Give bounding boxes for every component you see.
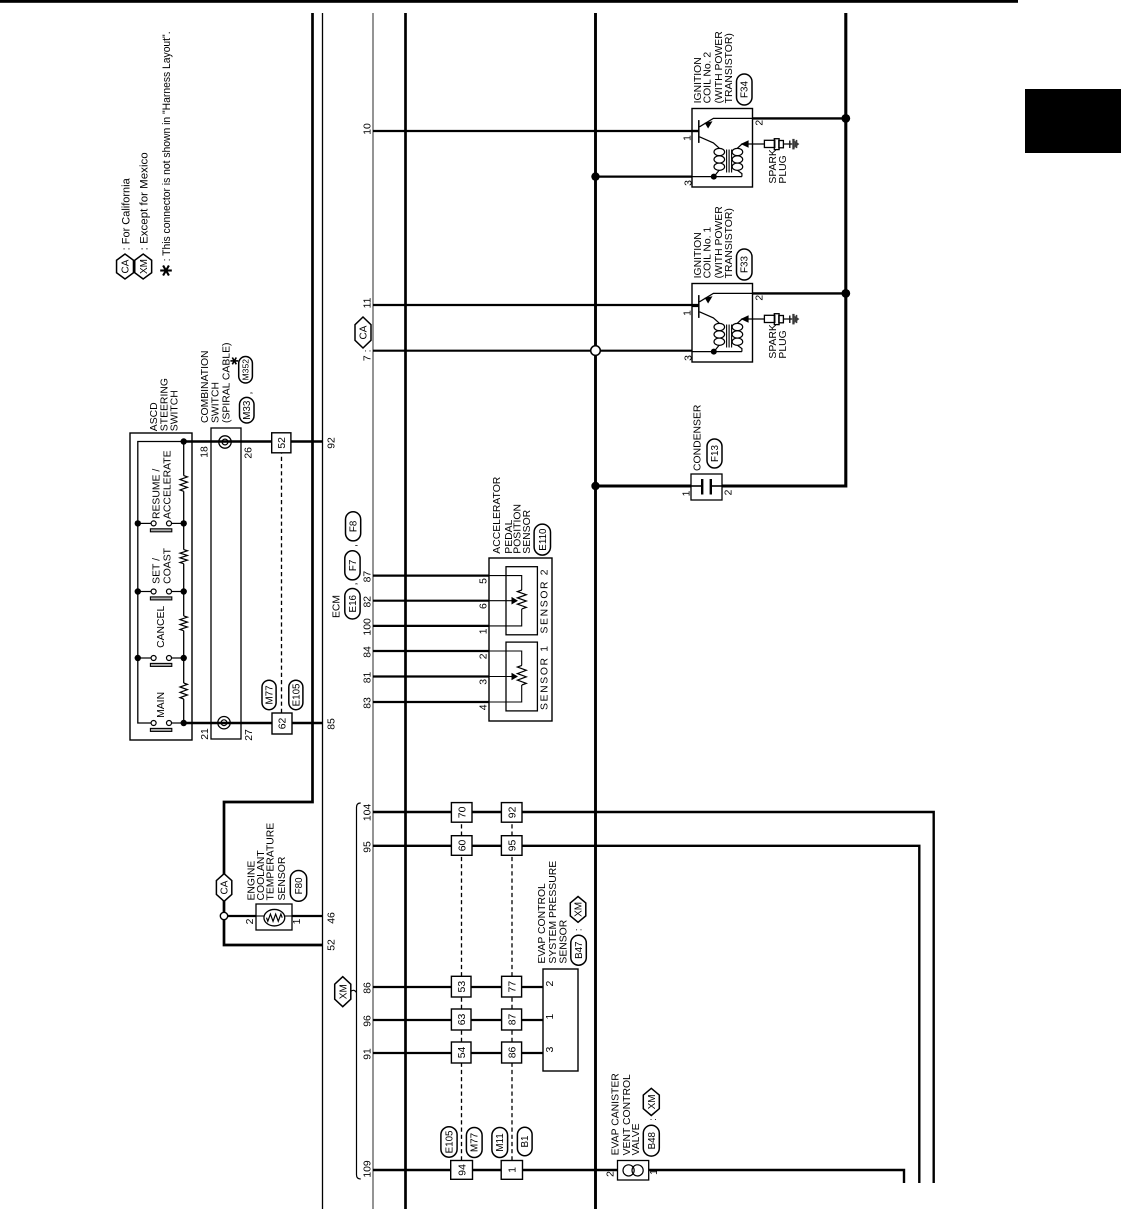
svg-text:COIL No. 1: COIL No. 1	[703, 227, 714, 279]
svg-text:2: 2	[479, 653, 490, 659]
svg-text:27: 27	[244, 729, 255, 741]
wire: valve pin 1 exit	[649, 1170, 904, 1183]
svg-text:ACCELERATE: ACCELERATE	[162, 450, 173, 519]
svg-text:81: 81	[362, 672, 373, 684]
harness dashed link between joints 52 and 62	[281, 453, 283, 713]
svg-text::: :	[574, 928, 585, 931]
ignition coil No.1 (with power transistor) F33, with spark plug	[692, 284, 799, 363]
switch: RESUME / ACCELERATE	[138, 450, 184, 531]
svg-text:ECM: ECM	[332, 595, 343, 618]
svg-text:46: 46	[326, 912, 337, 924]
svg-text:7 :: 7 :	[362, 350, 373, 362]
svg-text:60: 60	[457, 840, 468, 852]
svg-text:: Except for Mexico: : Except for Mexico	[139, 152, 151, 250]
symbol CA on ECT sensor branch	[216, 874, 231, 902]
symbol XM for B47	[570, 897, 586, 923]
connector joint 63	[451, 1009, 471, 1030]
node: open splice on trunk line 3	[591, 346, 601, 356]
svg-text:,: ,	[349, 544, 360, 547]
svg-text:86: 86	[362, 982, 373, 994]
svg-text:F34: F34	[740, 81, 751, 98]
svg-text:92: 92	[326, 437, 337, 449]
svg-text:PLUG: PLUG	[778, 155, 789, 183]
svg-text:RESUME /: RESUME /	[152, 469, 163, 519]
svg-text:SENSOR 1: SENSOR 1	[540, 646, 551, 710]
wire: ECM pin 87 to accelerator pedal position sensor pin 5	[373, 574, 489, 576]
thermistor symbol in ECT sensor	[256, 904, 292, 930]
wire: ECM pin 82 to accelerator pedal position sensor pin 6	[373, 600, 489, 602]
condenser F13	[691, 474, 722, 500]
harness dashed links column B	[511, 1063, 513, 1161]
wire: ECM pin 52 lead from splice	[224, 918, 323, 945]
svg-text:CA: CA	[359, 325, 370, 339]
svg-text:EVAP CONTROL: EVAP CONTROL	[537, 883, 548, 964]
svg-text:CA: CA	[121, 259, 132, 273]
svg-text:3: 3	[545, 1047, 556, 1053]
svg-text:: This connector is not shown: : This connector is not shown in "Harnes…	[161, 31, 173, 261]
svg-text:TRANSISTOR): TRANSISTOR)	[724, 33, 735, 103]
svg-text:26: 26	[244, 447, 255, 459]
svg-text:CA: CA	[220, 880, 231, 894]
connector F8	[346, 512, 361, 541]
wire: ECM pin 91 to EVAP pressure sensor pin 3	[373, 1052, 543, 1054]
svg-text:PLUG: PLUG	[778, 330, 789, 358]
resistor: ASCD chain R3	[180, 550, 187, 564]
wire: trunk line (For California ECT sensor branch)	[224, 13, 313, 914]
svg-text:,: ,	[349, 583, 360, 586]
svg-text:SENSOR 2: SENSOR 2	[540, 569, 551, 633]
svg-text:86: 86	[507, 1047, 518, 1059]
switch: MAIN	[150, 692, 183, 731]
svg-text:54: 54	[457, 1047, 468, 1059]
connector M33	[240, 397, 255, 423]
svg-text:SENSOR: SENSOR	[277, 856, 288, 900]
resistor: ASCD chain R4	[180, 476, 187, 492]
svg-text:52: 52	[326, 939, 337, 951]
svg-text:SET /: SET /	[152, 558, 163, 584]
ASCD steering switch box	[130, 433, 192, 740]
symbol XM for bracket group	[351, 990, 357, 992]
svg-text:10: 10	[362, 123, 373, 135]
svg-text:M11: M11	[495, 1133, 506, 1151]
svg-text:87: 87	[362, 571, 373, 583]
connector M77 (lower)	[466, 1128, 482, 1158]
svg-text:3: 3	[683, 180, 694, 186]
svg-text:SWITCH: SWITCH	[170, 390, 181, 431]
svg-text:COMBINATION: COMBINATION	[200, 350, 211, 423]
wire: ASCD to ECM pin 92 (through spiral cable and joint 52)	[184, 440, 323, 442]
wire: ECM pin 11 to ignition coil No.1 pin 1	[373, 304, 699, 306]
node: open splice on ECT branch	[220, 912, 227, 919]
wire: coil No.1 pin 2 to supply bus	[753, 292, 846, 294]
connector E105 (upper)	[289, 680, 303, 710]
connector F34	[737, 74, 753, 105]
page edge bar (top)	[0, 0, 1018, 3]
legend symbol CA: For California	[117, 254, 134, 279]
svg-text:87: 87	[507, 1014, 518, 1026]
svg-text:B1: B1	[520, 1136, 531, 1148]
wire: splice to ECT sensor pin 2	[228, 915, 256, 917]
ignition coil No.2 (with power transistor) F34, with spark plug	[692, 109, 799, 188]
node: junction coil No.1 supply	[841, 289, 850, 298]
svg-text:52: 52	[277, 437, 288, 449]
svg-text:82: 82	[362, 596, 373, 608]
spiral cable symbol on pin 18-26 wire	[219, 436, 231, 448]
svg-text:TRANSISTOR): TRANSISTOR)	[724, 208, 735, 278]
svg-text:100: 100	[362, 618, 373, 636]
switch: CANCEL	[138, 606, 184, 667]
connector joint 95	[501, 836, 522, 856]
wire: long trunk line 2	[404, 13, 407, 1209]
accelerator pedal position sensor E110 box	[489, 558, 552, 721]
connector E105 (lower)	[441, 1127, 457, 1158]
node: junction condenser wire on trunk line 3	[591, 482, 599, 490]
wire: ECM pin 84 to accelerator pedal position sensor pin 2	[373, 650, 489, 652]
svg-text:91: 91	[362, 1048, 373, 1060]
svg-text:XM: XM	[139, 259, 150, 274]
svg-text:TEMPERATURE: TEMPERATURE	[266, 823, 277, 901]
svg-text:CONDENSER: CONDENSER	[693, 404, 704, 471]
svg-text:83: 83	[362, 697, 373, 709]
EVAP canister vent control valve B48	[618, 1161, 649, 1181]
connector F13	[707, 439, 722, 468]
svg-text:3: 3	[479, 679, 490, 685]
EVAP control system pressure sensor B47 box	[543, 969, 578, 1071]
svg-text:M77: M77	[470, 1133, 481, 1152]
spiral cable symbol on pin 21-27 wire	[218, 717, 230, 729]
svg-text:1: 1	[683, 135, 694, 141]
wire: ECT sensor pin 1 to ECM pin 46	[285, 915, 292, 917]
wire: ASCD to ECM pin 85 (through spiral cable and joint 62)	[184, 722, 323, 724]
potentiometer: APP SENSOR 2 (pins 5,6,1)	[489, 567, 551, 635]
combination switch (spiral cable) box M33/M352	[211, 428, 241, 739]
connector E16	[345, 589, 360, 620]
switch: SET / COAST	[138, 547, 184, 600]
wire: ASCD internal upper rail	[138, 442, 184, 724]
connector F33	[737, 249, 753, 280]
connector joint 77	[502, 976, 522, 997]
svg-text:COIL No. 2: COIL No. 2	[703, 52, 714, 104]
svg-text:: For California: : For California	[120, 177, 132, 250]
node: ASCD rail junction dots	[135, 438, 187, 726]
svg-text:F33: F33	[740, 256, 751, 273]
svg-text:MAIN: MAIN	[156, 692, 167, 718]
svg-text:2: 2	[755, 120, 766, 126]
asterisk for M352	[230, 358, 238, 365]
connector B47	[571, 935, 587, 965]
node: junction coil No.2 supply	[841, 114, 850, 123]
wire: long trunk line 3 (with open splice for CA circuit)	[594, 356, 597, 1209]
svg-text:1: 1	[508, 1167, 519, 1173]
svg-text:1: 1	[545, 1014, 556, 1020]
svg-text:2: 2	[545, 981, 556, 987]
svg-text:F8: F8	[349, 520, 360, 532]
svg-text:53: 53	[457, 981, 468, 993]
svg-text:SENSOR: SENSOR	[522, 509, 533, 553]
connector F7	[345, 551, 360, 580]
wire: ECM case upper edge line	[322, 13, 324, 1209]
connector joint 53	[451, 976, 471, 997]
svg-text:SENSOR: SENSOR	[559, 919, 570, 963]
svg-text:CANCEL: CANCEL	[156, 606, 167, 648]
svg-text:SYSTEM PRESSURE: SYSTEM PRESSURE	[548, 861, 559, 964]
connector joint 60	[451, 836, 472, 856]
svg-text:XM: XM	[574, 902, 585, 917]
connector joint 1	[501, 1161, 522, 1180]
resistor: ASCD chain R2	[180, 616, 187, 631]
svg-text:2: 2	[605, 1171, 616, 1177]
svg-text:84: 84	[362, 646, 373, 658]
svg-text:2: 2	[724, 489, 735, 495]
wire: ECM pin 95 through joints 60/95	[373, 846, 919, 1183]
svg-text:2: 2	[755, 295, 766, 301]
wire: coil No.2 pin 2 to supply bus	[753, 117, 846, 119]
wire: ECM case lower edge line	[372, 13, 374, 1209]
svg-text:VALVE: VALVE	[631, 1123, 642, 1155]
svg-text:F80: F80	[294, 877, 305, 894]
svg-text:B48: B48	[647, 1131, 658, 1149]
wire: ignition supply bus to condenser	[596, 13, 846, 486]
svg-text:COAST: COAST	[162, 547, 173, 583]
bracket: XM pin group (104-109)	[357, 803, 361, 1179]
connector joint 52	[272, 433, 291, 453]
svg-text:1: 1	[292, 918, 303, 924]
svg-text:18: 18	[199, 446, 210, 458]
symbol CA on pin 7 wire	[355, 317, 371, 348]
svg-text:95: 95	[507, 840, 518, 852]
svg-text:4: 4	[479, 704, 490, 710]
svg-text:21: 21	[200, 728, 211, 740]
legend asterisk note	[160, 266, 172, 276]
legend symbol XM: Except for Mexico	[135, 254, 152, 279]
svg-text:EVAP CANISTER: EVAP CANISTER	[611, 1073, 622, 1156]
connector joint 70	[451, 803, 472, 823]
svg-text:11: 11	[362, 297, 373, 308]
svg-text:SWITCH: SWITCH	[211, 382, 222, 423]
connector M77 (upper)	[262, 680, 276, 710]
svg-text:E110: E110	[538, 528, 549, 551]
svg-text:(SPIRAL CABLE): (SPIRAL CABLE)	[221, 343, 232, 423]
svg-text:62: 62	[278, 718, 289, 730]
svg-text:XM: XM	[338, 984, 349, 999]
wire: ECM pin 86 to EVAP pressure sensor pin 2	[373, 986, 543, 988]
connector B1	[517, 1127, 532, 1155]
connector joint 54	[451, 1042, 471, 1063]
potentiometer: APP SENSOR 1 (pins 2,3,4)	[489, 642, 551, 711]
page corner black box	[1025, 89, 1121, 153]
wire: coil No.2 pin 3 to trunk line 3	[596, 175, 693, 177]
svg-text:2: 2	[245, 918, 256, 924]
connector M352 (*)	[239, 357, 253, 384]
svg-text:5: 5	[479, 578, 490, 584]
connector joint 92	[501, 803, 522, 823]
svg-text:1: 1	[649, 1169, 660, 1175]
svg-text:ACCELERATOR: ACCELERATOR	[492, 476, 503, 553]
svg-text:92: 92	[507, 806, 518, 818]
svg-text:E16: E16	[348, 594, 359, 612]
connector M11	[492, 1128, 508, 1158]
connector B48	[643, 1125, 659, 1156]
svg-text:1: 1	[683, 310, 694, 316]
wire: ECM pin 96 to EVAP pressure sensor pin 1	[373, 1019, 543, 1021]
svg-text:63: 63	[457, 1014, 468, 1026]
svg-text:XM: XM	[647, 1094, 658, 1109]
resistor: ASCD chain R1	[180, 683, 187, 699]
svg-text:B47: B47	[574, 941, 585, 958]
connector joint 62	[272, 713, 292, 734]
connector joint 86	[502, 1042, 522, 1063]
svg-text:ASCD: ASCD	[149, 402, 160, 431]
svg-text:70: 70	[457, 806, 468, 818]
svg-text:85: 85	[326, 718, 337, 730]
svg-text:77: 77	[507, 981, 518, 993]
svg-text:F13: F13	[710, 445, 721, 462]
wire: ASCD internal lower rail with resistors	[183, 699, 185, 723]
svg-text:6: 6	[479, 603, 490, 609]
svg-text:95: 95	[362, 841, 373, 853]
svg-text:1: 1	[682, 490, 693, 496]
wire: ECM pin 10 to ignition coil No.2 pin 1	[373, 130, 699, 132]
svg-text:104: 104	[362, 804, 373, 822]
svg-text::: :	[648, 1118, 659, 1121]
symbol XM for B48	[643, 1088, 659, 1115]
svg-text:1: 1	[479, 628, 490, 634]
harness dashed links column A	[461, 1063, 463, 1161]
wire: ECM pin 100 to accelerator pedal position sensor pin 1	[373, 625, 489, 627]
svg-text:M352: M352	[241, 359, 251, 381]
wire: ECM pin 7 (CA) to ignition coil No.1 pin 3	[373, 350, 591, 352]
svg-text:M77: M77	[265, 685, 276, 704]
connector joint 94	[451, 1161, 473, 1180]
connector joint 87	[502, 1009, 522, 1030]
svg-text:E105: E105	[444, 1130, 455, 1153]
node: junction coil No.2 pin 3	[591, 172, 599, 180]
connector F80	[290, 871, 306, 902]
svg-text:96: 96	[362, 1015, 373, 1027]
svg-text:M33: M33	[242, 400, 253, 420]
svg-text:,: ,	[244, 392, 255, 395]
wire: ECM pin 109 to EVAP canister vent control valve	[373, 1169, 618, 1171]
wire: ECM pin 104 through joints 70/92	[373, 812, 934, 1183]
svg-text:F7: F7	[348, 560, 359, 571]
svg-text:109: 109	[362, 1160, 373, 1178]
wire: ECM pin 81 to accelerator pedal position sensor pin 3	[373, 675, 489, 677]
svg-text:E105: E105	[291, 683, 302, 706]
svg-text:3: 3	[683, 355, 694, 361]
wire: ECM pin 83 to accelerator pedal position sensor pin 4	[373, 701, 489, 703]
connector E110	[534, 524, 550, 555]
svg-text:94: 94	[457, 1164, 468, 1176]
